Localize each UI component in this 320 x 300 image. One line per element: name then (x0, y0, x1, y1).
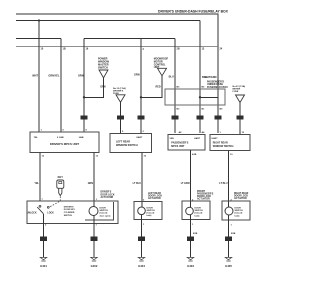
wire V6 (217, 47, 219, 134)
left rear actuator motor (138, 207, 146, 215)
wire below right rear actuator (228, 215, 230, 236)
svg-text:ACTUATOR: ACTUATOR (197, 198, 210, 201)
svg-text:DRIVER'S: DRIVER'S (64, 206, 74, 208)
svg-text:ACTUATOR: ACTUATOR (148, 197, 161, 200)
switch contact LOCK (47, 206, 49, 208)
arrow A2 fuse (116, 95, 125, 102)
svg-text:6 CAB: 6 CAB (57, 136, 64, 139)
ground G402 (91, 257, 97, 259)
arrow A3 to moonroof control unit (158, 68, 167, 76)
wire left rear switch to actuator (141, 153, 143, 208)
wire to ground 2 (93, 241, 95, 257)
svg-text:KEY: KEY (58, 175, 64, 179)
svg-text:G401: G401 (40, 264, 47, 268)
svg-text:LT BLU: LT BLU (219, 182, 228, 185)
svg-text:G405: G405 (225, 264, 232, 268)
node junction A3 (140, 96, 142, 98)
svg-text:RED: RED (156, 85, 161, 88)
arrow A1 to power window master switch (99, 70, 108, 78)
arrow A4 fuse (236, 95, 245, 103)
connector C555 (196, 115, 203, 119)
node junction A1 (83, 96, 85, 98)
svg-text:lock): lock) (235, 215, 240, 217)
svg-text:WINDOW SWITCH: WINDOW SWITCH (213, 145, 234, 148)
svg-text:DOOR: DOOR (100, 207, 107, 209)
wire V2 (60, 39, 62, 132)
svg-text:door open): door open) (100, 214, 111, 217)
svg-text:GRN: GRN (88, 182, 94, 185)
right rear window switch box (210, 135, 250, 151)
key symbol (57, 180, 64, 196)
right rear actuator motor (225, 207, 233, 215)
svg-text:ACTUATOR: ACTUATOR (101, 196, 114, 199)
node junction inside passenger box (199, 96, 201, 98)
wire W1 driver unit to door box (39, 153, 41, 202)
svg-text:UART: UART (136, 136, 143, 139)
wire from switch common down (43, 214, 45, 237)
passenger's MPCS unit box (168, 135, 205, 151)
svg-text:LEFT REAR: LEFT REAR (148, 192, 161, 195)
svg-text:LOCK: LOCK (47, 213, 54, 215)
node V1/B junction (38, 19, 40, 21)
dashed mechanical link from key to switch (49, 197, 60, 208)
connector C554 (171, 115, 178, 119)
passenger's under-dash fuse/relay box (165, 89, 225, 105)
driver's door lock actuator inner box edge (85, 202, 114, 220)
svg-text:BLU: BLU (169, 76, 174, 79)
left rear window switch box (110, 134, 152, 153)
svg-text:G402: G402 (91, 264, 98, 268)
svg-text:B1B: B1B (231, 233, 236, 235)
svg-text:WINDOW SWITCH: WINDOW SWITCH (116, 144, 138, 147)
svg-text:DRIVER'S: DRIVER'S (101, 192, 112, 194)
wire below left rear actuator (141, 215, 143, 237)
wire from fuse arrow to left rear switch (120, 102, 122, 133)
wire passenger unit to actuator (190, 150, 192, 207)
svg-text:lock): lock) (195, 215, 200, 217)
front passenger actuator motor (186, 207, 194, 215)
svg-text:UART: UART (212, 137, 219, 140)
svg-text:ACTUATOR: ACTUATOR (234, 197, 247, 200)
right rear door lock actuator box (222, 201, 250, 220)
connector C552 (117, 115, 124, 119)
svg-text:SWITCH: SWITCH (100, 210, 109, 212)
svg-text:WHT: WHT (32, 75, 38, 78)
svg-text:GRN: GRN (134, 74, 140, 77)
wire branch to moonroof arrow (141, 76, 162, 98)
wire to ground 5 (228, 241, 230, 257)
connector C556 (214, 115, 221, 119)
ground G403 (187, 257, 193, 259)
svg-text:B1B: B1B (193, 233, 198, 235)
svg-text:2B: 2B (177, 48, 180, 51)
svg-text:GRN: GRN (100, 86, 106, 89)
svg-text:lock): lock) (147, 215, 152, 217)
connector C563 (138, 236, 145, 241)
svg-text:UNIT: UNIT (154, 66, 160, 69)
svg-text:LT GRN: LT GRN (181, 182, 190, 185)
svg-text:DOOR LOCK: DOOR LOCK (101, 194, 115, 196)
svg-text:G403: G403 (187, 264, 194, 268)
wire V4 (140, 39, 142, 134)
svg-text:DOOR KEY: DOOR KEY (64, 209, 76, 211)
switch contact UNLOCK (39, 205, 41, 207)
svg-text:DRIVER'S UNDER-DASH FUSE/RELAY: DRIVER'S UNDER-DASH FUSE/RELAY BOX (158, 9, 229, 13)
svg-text:SWITCH: SWITCH (64, 215, 73, 217)
connector C557 (236, 115, 243, 119)
wire B horizontal bus (16, 20, 200, 22)
switch blade (37, 207, 43, 214)
wire branch to master switch arrow (84, 78, 104, 97)
wire to ground 3 (141, 241, 143, 257)
svg-text:UART: UART (194, 137, 201, 140)
svg-text:FUSE: FUSE (233, 91, 239, 93)
svg-text:SWITCH: SWITCH (98, 66, 108, 69)
connector C564 (187, 236, 194, 241)
connector C562 (91, 236, 98, 241)
wire C2 horizontal (84, 38, 175, 40)
svg-text:CYLINDER: CYLINDER (64, 212, 75, 214)
svg-text:VEU: VEU (170, 138, 175, 140)
svg-text:LT BLU: LT BLU (133, 182, 142, 185)
wire to ground 4 (190, 241, 192, 257)
ground G405 (225, 257, 231, 259)
connector C553 (137, 115, 144, 119)
svg-text:YEL: YEL (34, 182, 39, 185)
svg-text:MPCS UNIT: MPCS UNIT (171, 145, 185, 148)
connector C561 (40, 236, 47, 241)
connector C565 (225, 236, 232, 241)
ground G404 (138, 257, 144, 259)
driver's door box (27, 201, 118, 224)
front passenger door lock actuator box (182, 201, 210, 220)
wire W2 below motor (93, 215, 95, 237)
svg-text:DRIVER'S MPCS UNIT: DRIVER'S MPCS UNIT (50, 142, 80, 146)
svg-text:UNLOCK: UNLOCK (27, 213, 37, 215)
wire V8 (239, 103, 241, 135)
wire V3 (83, 39, 85, 132)
wire below front passenger actuator (190, 215, 192, 237)
svg-text:PASSENGER'S: PASSENGER'S (197, 192, 214, 195)
svg-text:1B: 1B (63, 48, 66, 51)
connector C551 (80, 115, 87, 119)
wire V5 (174, 39, 176, 134)
wire C1 horizontal (16, 38, 61, 40)
svg-text:UAB: UAB (79, 136, 84, 139)
wire V1 (38, 21, 40, 133)
ground G401 (40, 257, 46, 259)
fuse/relay box top and right border (16, 14, 218, 47)
svg-text:FUSE/RELAY BOX: FUSE/RELAY BOX (207, 86, 228, 89)
svg-text:A1B: A1B (192, 153, 197, 156)
svg-text:GRN/YEL: GRN/YEL (48, 75, 60, 78)
wire right rear switch to actuator (228, 151, 230, 208)
wire branch inside passenger box (200, 96, 218, 98)
left rear door lock actuator box (134, 202, 162, 220)
svg-text:YEL: YEL (34, 137, 39, 139)
svg-text:RIGHT REAR: RIGHT REAR (234, 192, 249, 195)
driver's MPCS unit box (30, 132, 99, 153)
svg-text:(Closed:: (Closed: (100, 213, 109, 215)
wire W2 driver unit to door actuator (93, 153, 95, 207)
wire to ground 1 (43, 241, 45, 257)
wire V7 (199, 21, 201, 134)
svg-text:WHT/GRN: WHT/GRN (205, 76, 217, 79)
fuse/relay box bottom border (16, 46, 218, 48)
driver door actuator motor (89, 207, 98, 216)
svg-text:ORN: ORN (78, 75, 84, 78)
svg-text:G404: G404 (138, 264, 145, 268)
